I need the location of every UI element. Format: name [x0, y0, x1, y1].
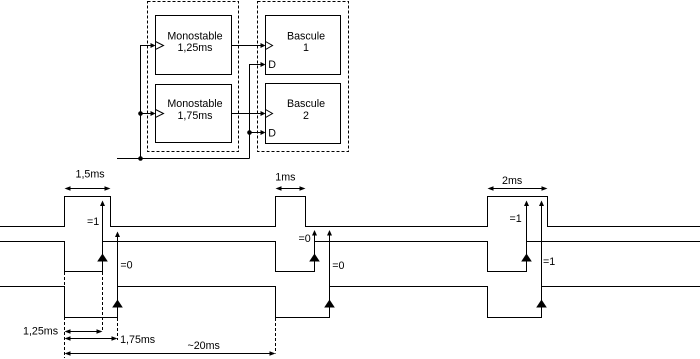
- svg-text:D: D: [268, 128, 276, 140]
- svg-text:1,5ms: 1,5ms: [76, 169, 105, 181]
- svg-text:=0: =0: [299, 233, 311, 245]
- svg-text:2ms: 2ms: [502, 175, 522, 187]
- svg-text:1: 1: [303, 42, 309, 54]
- svg-text:=0: =0: [332, 260, 344, 272]
- svg-text:=0: =0: [120, 259, 132, 271]
- svg-text:D: D: [268, 59, 276, 71]
- svg-text:=1: =1: [543, 256, 555, 268]
- svg-text:Bascule: Bascule: [287, 30, 325, 42]
- svg-text:2: 2: [303, 110, 309, 122]
- svg-text:=1: =1: [87, 216, 99, 228]
- svg-text:1ms: 1ms: [275, 172, 295, 184]
- svg-text:1,75ms: 1,75ms: [120, 334, 155, 346]
- svg-text:Monostable: Monostable: [167, 30, 222, 42]
- svg-text:1,25ms: 1,25ms: [177, 42, 212, 54]
- svg-text:1,75ms: 1,75ms: [177, 110, 212, 122]
- svg-text:=1: =1: [510, 213, 522, 225]
- svg-text:~20ms: ~20ms: [188, 340, 220, 352]
- svg-text:Bascule: Bascule: [287, 98, 325, 110]
- svg-text:Monostable: Monostable: [167, 98, 222, 110]
- svg-text:1,25ms: 1,25ms: [23, 326, 58, 338]
